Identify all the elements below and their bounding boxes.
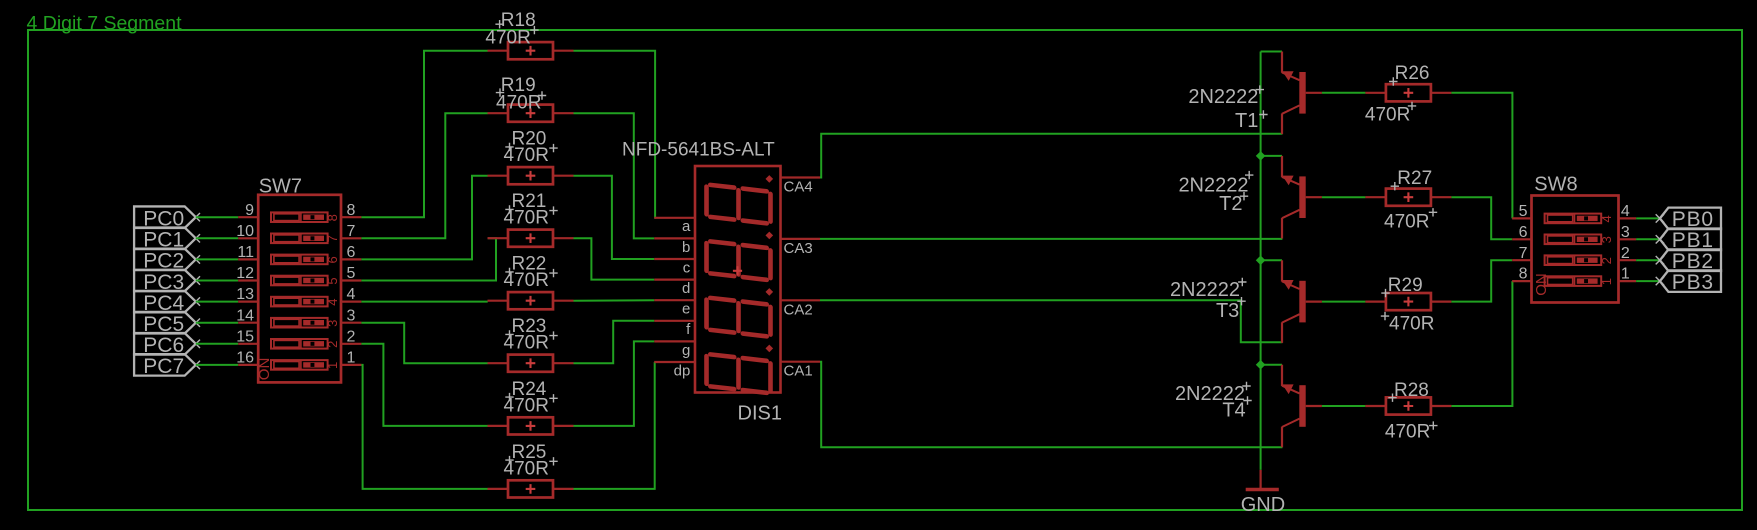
wire R24 to DIS1 pin g [574,341,655,426]
svg-text:3: 3 [325,320,340,327]
svg-text:470R: 470R [504,270,549,291]
transistor T2 2N2222 [1178,156,1321,239]
svg-text:12: 12 [236,265,254,282]
svg-text:R26: R26 [1395,63,1430,84]
svg-text:4: 4 [347,286,356,303]
svg-text:1: 1 [347,350,356,367]
svg-text:CA3: CA3 [784,240,813,257]
wire SW7 pin 3 to R23 [361,323,487,364]
connector PB2 [1656,249,1721,272]
wire PC2 to SW7 pin 11 [196,258,238,260]
wire R22 to DIS1 pin e [574,299,655,302]
wire T4 collector stub [1261,364,1282,366]
svg-text:b: b [682,239,690,256]
wire PC4 to SW7 pin 13 [196,301,238,303]
resistor R24 [488,379,574,435]
svg-text:8: 8 [347,202,356,219]
wire T2 base to R27 [1322,196,1366,198]
connector PC4 [134,291,200,315]
wire T4 base to R28 [1322,405,1366,407]
DIS1 digits [707,184,771,223]
wire DIS1 CA2 to T3 emitter [820,300,1282,342]
svg-text:470R: 470R [504,458,549,479]
transistor T4 2N2222 [1175,365,1322,448]
wire R18 to DIS1 pin a [574,51,656,218]
svg-text:3: 3 [1599,236,1614,243]
svg-text:3: 3 [1621,224,1630,241]
wire SW7 pin 2 to R24 [361,344,487,426]
svg-text:g: g [682,342,690,359]
svg-text:16: 16 [236,350,254,367]
svg-text:15: 15 [236,328,254,345]
wire T1 base to R26 [1322,92,1366,94]
wire R20 to DIS1 pin c [574,176,655,259]
wire SW7 pin 4 to R22 [361,301,487,303]
transistor T3 2N2222 [1170,260,1322,343]
wire T2 collector stub [1261,155,1282,157]
wire collector bus to GND [1260,52,1262,470]
svg-text:ON: ON [256,358,273,381]
svg-text:PB3: PB3 [1672,271,1714,294]
wire SW8 pin 4 to PB0 [1636,217,1660,219]
svg-text:R28: R28 [1394,380,1429,401]
connector PC1 [134,228,200,252]
wire R27 to SW8 pin 6 [1451,197,1512,239]
wire R23 to DIS1 pin f [574,321,655,363]
svg-text:5: 5 [347,265,356,282]
svg-text:470R: 470R [1389,313,1434,334]
svg-text:470R: 470R [485,28,530,49]
connector PC0 [134,206,200,230]
connector PC3 [134,270,200,294]
svg-text:4 Digit 7 Segment: 4 Digit 7 Segment [27,13,183,35]
svg-text:2: 2 [1599,257,1614,264]
wire PC7 to SW7 pin 16 [196,364,238,366]
wire DIS1 CA3 to T2 emitter [820,238,1282,240]
svg-text:2: 2 [347,328,356,345]
svg-text:6: 6 [325,256,340,263]
svg-text:470R: 470R [1385,422,1430,443]
svg-text:470R: 470R [504,395,549,416]
connector PB0 [1656,208,1721,231]
svg-text:13: 13 [236,286,254,303]
svg-text:3: 3 [347,307,356,324]
svg-text:7: 7 [1519,245,1528,262]
dip switch SW7 [236,175,361,382]
wire SW7 pin 1 to R25 [361,365,487,489]
wire R26 to SW8 pin 5 [1451,93,1512,219]
resistor R25 [488,442,574,498]
svg-text:R27: R27 [1397,168,1432,189]
svg-text:9: 9 [245,202,254,219]
wire SW7 pin 7 to R19 [361,113,487,238]
wire PC6 to SW7 pin 15 [196,343,238,345]
wire R21 to DIS1 pin d [574,238,655,279]
svg-text:470R: 470R [504,333,549,354]
resistor R19 [488,75,574,122]
resistor R28 [1365,380,1451,443]
svg-text:470R: 470R [1365,105,1410,126]
svg-text:CA2: CA2 [784,301,813,318]
svg-text:dp: dp [674,362,691,379]
svg-text:7: 7 [325,235,340,242]
display DIS1 NFD-5641BS-ALT [622,139,820,424]
svg-text:1: 1 [325,362,340,369]
svg-text:6: 6 [347,244,356,261]
svg-text:4: 4 [1599,215,1614,222]
resistor R21 [488,191,574,247]
svg-text:6: 6 [1519,224,1528,241]
svg-text:14: 14 [236,307,254,324]
connector PC5 [134,312,200,336]
svg-text:c: c [683,259,691,276]
svg-text:470R: 470R [496,93,541,114]
resistor R26 [1365,63,1452,126]
svg-text:2: 2 [325,341,340,348]
resistor R20 [488,129,574,185]
svg-text:7: 7 [347,223,356,240]
wire SW7 pin 5 to R21 [361,238,496,280]
svg-text:8: 8 [325,214,340,221]
wire PC5 to SW7 pin 14 [196,322,238,324]
svg-text:1: 1 [1621,266,1630,283]
wire T3 base to R29 [1322,301,1366,303]
svg-text:NFD-5641BS-ALT: NFD-5641BS-ALT [622,139,775,160]
resistor R23 [488,316,574,372]
svg-text:4: 4 [1621,203,1630,220]
connector PC6 [134,333,200,357]
svg-text:8: 8 [1519,266,1528,283]
wire R25 to DIS1 pin dp [574,362,655,489]
svg-text:470R: 470R [504,145,549,166]
wire SW7 pin 8 to R18 [361,51,487,218]
svg-text:1: 1 [1599,278,1614,285]
junction T4 collector [1256,360,1266,370]
svg-text:CA1: CA1 [784,363,813,380]
svg-text:e: e [682,301,690,318]
wire SW8 pin 2 to PB2 [1636,259,1660,261]
svg-text:ON: ON [1533,273,1550,296]
wire R29 to SW8 pin 7 [1451,260,1512,301]
wire PC1 to SW7 pin 10 [196,237,238,239]
svg-text:11: 11 [237,244,254,261]
connector PB3 [1656,270,1721,293]
dip switch SW8 [1512,174,1636,303]
wire DIS1 CA4 to T1 emitter [820,134,1282,178]
resistor R18 [485,10,573,59]
junction T2 collector [1256,151,1266,161]
resistor R22 [488,254,574,310]
svg-text:2N2222: 2N2222 [1170,279,1240,301]
svg-text:T4: T4 [1222,400,1245,422]
svg-text:10: 10 [236,223,254,240]
svg-text:2N2222: 2N2222 [1188,86,1258,108]
wire R19 to DIS1 pin b [574,113,655,238]
svg-text:PC7: PC7 [143,355,184,378]
wire SW8 pin 1 to PB3 [1636,280,1660,282]
svg-text:CA4: CA4 [784,179,813,196]
svg-text:470R: 470R [504,208,549,229]
wire SW7 pin 6 to R20 [361,176,487,260]
junction T3 collector [1256,255,1266,265]
wire R28 to SW8 pin 8 [1451,281,1512,406]
svg-text:T2: T2 [1219,193,1242,215]
svg-text:5: 5 [1519,203,1528,220]
svg-text:4: 4 [325,298,340,305]
resistor R27 [1365,168,1451,232]
connector PC7 [134,354,200,378]
transistor T1 2N2222 [1188,52,1322,135]
svg-text:R29: R29 [1388,275,1423,296]
svg-text:SW8: SW8 [1534,174,1577,196]
svg-text:470R: 470R [1384,211,1429,232]
wire DIS1 CA1 to T4 emitter [820,362,1282,448]
svg-text:a: a [682,218,691,235]
svg-text:GND: GND [1241,494,1285,516]
svg-text:SW7: SW7 [259,175,302,197]
svg-text:T1: T1 [1235,110,1258,132]
ground GND [1241,470,1285,516]
connector PC2 [134,249,200,273]
svg-text:5: 5 [325,277,340,284]
svg-text:d: d [682,280,690,297]
wire SW8 pin 3 to PB1 [1636,238,1660,240]
wire T1 collector stub [1261,51,1282,53]
wire T3 collector stub [1261,259,1282,261]
svg-text:2: 2 [1621,245,1630,262]
svg-text:T3: T3 [1216,300,1239,322]
wire PC0 to SW7 pin 9 [196,216,238,218]
resistor R29 [1365,275,1451,335]
wire PC3 to SW7 pin 12 [196,280,238,282]
connector PB1 [1656,229,1721,252]
svg-text:DIS1: DIS1 [738,403,782,425]
